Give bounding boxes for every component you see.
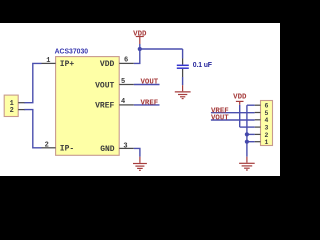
- svg-text:5: 5: [121, 78, 125, 86]
- wire VDD junction to capacitor: [140, 48, 183, 50]
- wire bus to J2 pin 6: [247, 104, 255, 106]
- wire bus to J2 pin 3: [247, 126, 255, 128]
- connector J1 pin 1 number: [10, 100, 14, 108]
- net label VREF (at U1 pin 4): [134, 99, 160, 107]
- IC U1 name ACS37030: [55, 46, 89, 55]
- IC pin name IP-: [60, 145, 74, 154]
- svg-text:3: 3: [264, 125, 268, 132]
- net label VOUT (to J2 pin 4): [211, 115, 255, 123]
- capacitor C1: [177, 59, 189, 78]
- connector J2 pin numbers: [264, 103, 268, 147]
- wire net IP- (J1-2 to U1-2): [24, 110, 41, 148]
- svg-text:VREF: VREF: [95, 102, 114, 111]
- wire bus to J2 pin 2: [247, 133, 255, 135]
- svg-text:IP-: IP-: [60, 145, 74, 154]
- svg-text:3: 3: [123, 142, 127, 150]
- capacitor C1 value 0.1 uF: [193, 62, 212, 69]
- svg-text:GND: GND: [100, 145, 115, 154]
- svg-text:VREF: VREF: [141, 99, 159, 107]
- wire U1 pin 3 to ground: [134, 148, 140, 156]
- connector J1 pin 2 stub: [18, 109, 25, 111]
- svg-text:6: 6: [124, 57, 128, 65]
- ground symbol (under J2 bus): [239, 157, 255, 170]
- svg-text:IP+: IP+: [60, 60, 75, 69]
- connector J1 pin 2 number: [10, 107, 14, 115]
- wire net IP+ (J1-1 to U1-1): [24, 63, 41, 102]
- IC pin 6 number: [124, 57, 128, 65]
- svg-text:6: 6: [264, 103, 268, 110]
- wire capacitor top lead net: [182, 49, 184, 59]
- IC pin name VREF: [95, 102, 114, 111]
- VDD power symbol (top): [133, 30, 147, 44]
- IC pin 2 number: [45, 141, 49, 149]
- IC pin name GND: [100, 145, 115, 154]
- svg-text:VOUT: VOUT: [141, 79, 159, 87]
- net label VOUT (at U1 pin 5): [134, 79, 160, 87]
- svg-text:VOUT: VOUT: [211, 115, 229, 123]
- IC pin name IP+: [60, 60, 75, 69]
- connector J1 body (left 2-pin): [4, 95, 18, 116]
- wire bus to J2 pin 1: [247, 141, 255, 143]
- svg-text:VOUT: VOUT: [95, 81, 114, 90]
- VDD power symbol (right): [233, 93, 247, 105]
- junction dot at J2 pin 2 row: [245, 132, 249, 136]
- svg-text:2: 2: [10, 107, 14, 115]
- IC pin 5 number: [121, 78, 125, 86]
- svg-text:4: 4: [121, 98, 125, 106]
- letterbox background: [0, 0, 280, 200]
- IC pin 6 VDD stub: [119, 62, 134, 64]
- IC pin 5 VOUT stub: [119, 84, 134, 86]
- wire VDD junction down to U1 pin 6: [134, 49, 140, 63]
- svg-text:VDD: VDD: [233, 93, 247, 101]
- IC pin 4 number: [121, 98, 125, 106]
- svg-text:5: 5: [264, 110, 268, 117]
- IC pin 2 IP- stub: [42, 147, 56, 149]
- wire VDD stem down (right): [239, 105, 241, 127]
- junction dot VDD node: [138, 47, 142, 51]
- junction dot at J2 pin 1 row: [245, 140, 249, 144]
- ground symbol (under U1 GND pin): [133, 157, 147, 171]
- svg-text:2: 2: [45, 141, 49, 149]
- connector J1 pin 1 stub: [18, 102, 25, 104]
- IC pin name VOUT: [95, 81, 114, 90]
- svg-text:1: 1: [264, 139, 268, 146]
- svg-text:2: 2: [264, 132, 268, 139]
- net label VREF (to J2 pin 5): [211, 107, 255, 115]
- IC pin 1 number: [46, 57, 50, 65]
- IC pin 1 IP+ stub: [42, 62, 56, 64]
- connector J2 body (right 6-pin): [261, 101, 273, 146]
- wire VDD stem to junction: [139, 44, 141, 49]
- svg-text:ACS37030: ACS37030: [55, 46, 89, 55]
- wire VDD jog to vertical bus: [240, 126, 247, 128]
- IC pin 3 number: [123, 142, 127, 150]
- wire vertical bus (right of VDD, J2 side): [246, 105, 248, 157]
- IC pin name VDD: [100, 60, 115, 69]
- wire capacitor bottom lead to ground: [182, 77, 184, 85]
- connector J2 pin stubs: [255, 105, 261, 142]
- IC pin 4 VREF stub: [119, 104, 134, 106]
- IC U1 body: [56, 57, 120, 156]
- svg-text:VDD: VDD: [100, 60, 115, 69]
- IC pin 3 GND stub: [119, 147, 134, 149]
- svg-text:0.1 uF: 0.1 uF: [193, 62, 212, 69]
- svg-text:1: 1: [46, 57, 50, 65]
- ground symbol (under capacitor): [175, 85, 191, 98]
- svg-text:4: 4: [264, 117, 268, 124]
